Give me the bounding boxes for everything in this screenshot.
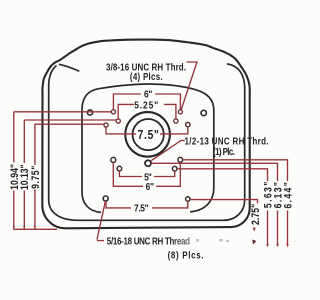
center circle inner xyxy=(133,119,164,150)
dim text 7.5 bottom xyxy=(134,203,149,215)
dim text 6 top xyxy=(144,89,152,101)
arrowheads right dim bottoms xyxy=(13,226,289,247)
hole E xyxy=(178,157,183,162)
left baseline arrow ticks xyxy=(13,226,15,229)
faint remnant marks xyxy=(196,239,229,242)
hole G2 xyxy=(117,166,122,171)
svg-text:5.25": 5.25" xyxy=(134,100,158,112)
label 1/2-13 xyxy=(185,135,269,146)
hole D xyxy=(201,110,206,115)
hole L2 xyxy=(111,110,115,114)
dim text 7.5 circle xyxy=(138,129,159,142)
dim 2.75 run from hole H2 xyxy=(190,200,257,204)
dim 6 mid xyxy=(113,162,180,186)
rotated label 6.13 xyxy=(273,182,285,208)
label (8) Plcs. xyxy=(168,249,204,260)
seat pan inner lip left xyxy=(49,66,57,201)
dim 6 top xyxy=(113,94,180,110)
lip seam arc top-left xyxy=(59,64,79,71)
dim vertical 10.13 xyxy=(23,120,25,229)
leader 1/2-13 xyxy=(151,141,185,162)
dim 7.5 circle xyxy=(106,127,188,134)
rotated label 10.94 xyxy=(9,164,21,190)
hole L1 xyxy=(87,110,92,115)
lip right xyxy=(227,64,245,200)
dim line left 10.94 horizontal xyxy=(14,111,112,113)
svg-text:2.75": 2.75" xyxy=(250,204,262,225)
hole H1 xyxy=(103,196,108,201)
hole B xyxy=(174,119,178,123)
svg-text:6": 6" xyxy=(146,181,154,193)
hole L3 xyxy=(116,119,120,123)
dim 5.25 top xyxy=(118,104,176,118)
dim 5 mid xyxy=(119,171,174,177)
svg-text:7.5": 7.5" xyxy=(134,203,149,215)
dim vertical 9.75 xyxy=(34,124,36,229)
hole F xyxy=(172,166,177,171)
dim line left 10.13 horizontal xyxy=(24,119,116,121)
svg-text:(1) Plc.: (1) Plc. xyxy=(213,146,235,157)
label 5/16-18 xyxy=(107,236,190,247)
svg-text:(8) Plcs.: (8) Plcs. xyxy=(168,249,204,260)
dim 6.44 run from hole E xyxy=(183,160,288,246)
hole L4 xyxy=(104,123,108,127)
rotated label 5.63 xyxy=(263,182,275,208)
dim 6.13 run from center hole xyxy=(151,163,278,245)
dim 7.5 bottom xyxy=(106,201,188,208)
left baseline xyxy=(13,228,57,230)
leader 3/8-16 xyxy=(181,62,197,110)
rotated label 9.75 xyxy=(30,166,42,189)
svg-text:7.5": 7.5" xyxy=(138,129,159,142)
svg-text:1/2-13 UNC RH Thrd.: 1/2-13 UNC RH Thrd. xyxy=(185,135,269,146)
svg-text:6.44": 6.44" xyxy=(283,182,295,208)
label (4) Plcs. xyxy=(130,71,163,82)
arrow 2.75 lower dark xyxy=(252,240,256,245)
hole H2 xyxy=(186,197,190,201)
top plate left edge + bottom-left corner xyxy=(82,110,101,212)
arrow 2.75 upper xyxy=(253,228,256,232)
leader 5/16-18 xyxy=(97,201,105,240)
fade over thread text xyxy=(168,235,220,247)
hole A xyxy=(178,110,182,114)
dim line left 9.75 horizontal xyxy=(35,123,104,125)
lip bottom xyxy=(49,200,245,220)
dim text 5 mid xyxy=(144,172,152,184)
dim 5.63 run from hole F xyxy=(177,169,268,246)
svg-text:9.75": 9.75" xyxy=(30,166,42,189)
rotated label 2.75 xyxy=(250,204,262,225)
hole center 1/2-13 xyxy=(145,160,151,166)
label (1) Plc. xyxy=(213,146,235,157)
rotated label 6.44 xyxy=(283,182,295,208)
center circle outer 7.5in xyxy=(125,112,170,157)
label 3/8-16 xyxy=(106,61,186,72)
dim vertical 10.94 xyxy=(13,112,15,230)
dim text 5.25 xyxy=(134,100,158,112)
dim text 6 mid xyxy=(146,181,154,193)
hole C xyxy=(186,122,190,126)
hole G1 xyxy=(111,157,116,162)
svg-text:(4) Plcs.: (4) Plcs. xyxy=(130,71,163,82)
seat pan outer outline xyxy=(42,40,249,229)
rotated label 10.13 xyxy=(19,164,31,190)
top plate outline xyxy=(82,84,214,212)
